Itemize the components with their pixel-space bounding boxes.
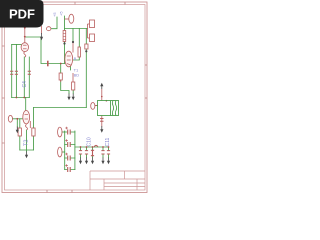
wire leg CE (80, 147, 82, 158)
svg-text:T2: T2 (23, 140, 29, 146)
connector X2 pin (65, 18, 69, 20)
polarized cap CA plates (68, 130, 71, 135)
crystal X1a pin (88, 23, 90, 25)
wire D1 to bus2 long vertical (85, 29, 87, 108)
junction dot T2 gate (16, 118, 18, 120)
crystal X1a body (90, 20, 95, 28)
title block (90, 171, 145, 190)
wire leg CF (86, 147, 88, 158)
wire bus2 horizontal (34, 107, 87, 109)
wire J2 pin (62, 151, 65, 153)
wire label N2 down to top bus (64, 16, 66, 30)
gnd arrow under relay (100, 126, 103, 133)
capacitor C2 plates on x14.5 (10, 71, 13, 74)
frame tick left 2 (2, 97, 5, 99)
capacitor CI plates (107, 151, 110, 154)
wire gnd stub x17.3 (16, 119, 18, 127)
gnd arrow leg CI (107, 158, 110, 165)
ground arrows and junctions black (16, 33, 110, 164)
resistor R3 body (18, 128, 21, 136)
junction dot R1 bottom (63, 42, 65, 44)
wire T1 source leg 2 (28, 57, 30, 98)
capacitor CE plates (79, 151, 82, 154)
frame inner border (5, 5, 146, 191)
connector X2 oval (69, 14, 74, 23)
wire relay J4 pin joint (96, 105, 98, 107)
junction dots bus1 (16, 97, 18, 99)
frame tick top 1 (74, 2, 76, 5)
capacitor CG body (91, 150, 94, 155)
frame tick bottom 1 (46, 190, 48, 193)
resistor R5 bottom pin (60, 80, 62, 82)
frame tick top 2 (124, 2, 126, 5)
svg-text:C11: C11 (105, 137, 111, 146)
frame tick bottom 2 (71, 190, 73, 193)
junction dot R5 branch (60, 63, 62, 65)
transistor T2 squiggle (26, 125, 28, 131)
relay K1 top pin (101, 89, 103, 101)
transistor T2 body (23, 111, 30, 124)
polarized cap CC plates (68, 156, 71, 161)
svg-text:C10: C10 (87, 137, 93, 146)
gnd arrow leg CG (91, 158, 94, 165)
wire vertical x14.5 (11, 45, 13, 98)
wire bottom gnd bus (75, 146, 109, 148)
wire T1 source leg 1 (23, 57, 25, 98)
fuse bump on bottom bus (94, 145, 98, 147)
connector J1 oval (58, 127, 62, 137)
wire R4 bottom (33, 136, 35, 150)
supply arrow up at relay (100, 83, 103, 89)
polarized cap CD plus (65, 164, 68, 167)
frame tick right 2 (145, 97, 147, 99)
transistor Q3 top pin (72, 43, 74, 53)
wire R5 branch from base wire (61, 64, 69, 94)
wire R3 top drop (19, 119, 21, 128)
wire leg CI (108, 147, 110, 158)
crystal pins vertical link (87, 24, 89, 38)
gnd arrow leg CE (79, 158, 82, 165)
wire T1 gate bus (12, 44, 21, 46)
resistor R2 body (78, 47, 80, 57)
wire R2 bottom to Q3 right (73, 57, 80, 60)
wire net group (12, 16, 109, 170)
gnd arrow under J3 (16, 127, 19, 134)
wire R3 bottom (19, 136, 21, 150)
PDF badge (0, 0, 44, 28)
svg-text:B: B (74, 56, 77, 61)
gnd arrow under T2 bus (25, 152, 28, 159)
connector J4 pin (95, 105, 98, 107)
resistor R1 body (63, 31, 66, 42)
gnd arrow under R6 (72, 94, 75, 101)
polarized cap CB plus (65, 139, 68, 142)
wire bus2 corner to R4 (33, 108, 35, 129)
relay K1 bottom pin (101, 116, 103, 127)
frame tick left 3 (2, 142, 5, 144)
wire bus1 (12, 97, 30, 99)
crystal X1b body (90, 34, 95, 42)
polarized cap CA plus (65, 127, 68, 130)
relay K1 second pin dot (106, 100, 108, 102)
wire J1 pin (62, 131, 65, 133)
capacitor C1 series mark (47, 61, 49, 67)
wire cap CD stubs (65, 169, 75, 171)
resistor R6 body (72, 82, 75, 90)
wire R2 drop (78, 29, 80, 48)
junction dot T1 drain (24, 36, 26, 38)
resistor R4 body (32, 128, 35, 136)
polarized cap CC plus (65, 153, 68, 156)
wire T2 source down (26, 130, 28, 150)
wire output rail left (64, 131, 66, 170)
wire Q3 collector drop (72, 29, 74, 43)
capacitor C4 plates on x30.5 (28, 71, 31, 74)
junction dot T1 pin top (24, 27, 26, 29)
wire bus1 down to T2 (25, 98, 27, 114)
page background (0, 0, 149, 198)
crystal X1b pin (88, 37, 90, 39)
supply pin under badge (41, 26, 43, 34)
transistor Q3 body (65, 51, 73, 67)
wire leg CH (102, 147, 104, 158)
wire T1 drain to C1 to Q3 base (25, 37, 65, 64)
svg-text:+5: +5 (52, 12, 57, 17)
wire leg CG (92, 147, 94, 158)
svg-text:C4: C4 (22, 81, 28, 88)
wire cap CB stubs (65, 144, 75, 146)
wire R1 bottom to Q3 base (64, 42, 66, 64)
gnd arrow under R5 (67, 94, 70, 101)
frame tick right 1 (145, 64, 147, 66)
relay contact wave 2 (115, 101, 116, 116)
connector J3 oval (8, 115, 12, 122)
blue net labels (22, 11, 111, 147)
relay K1 top pin dot (101, 96, 103, 98)
junction dot D1 (85, 50, 87, 52)
component group red (8, 14, 110, 172)
gnd arrow leg CH (101, 158, 104, 165)
wire top bus (65, 28, 88, 30)
svg-text:BD: BD (74, 73, 80, 78)
gnd arrow under supply pin (40, 33, 43, 40)
capacitor CH plates (101, 151, 104, 154)
wire gnd bus under T2 (20, 150, 34, 152)
junction dot Q3 collector (72, 41, 74, 43)
capacitor CF plates (85, 151, 88, 154)
transistor T1 body (21, 43, 28, 52)
junction dots bottom bus (80, 146, 82, 148)
wire T2 gate (13, 118, 24, 120)
diode D1 body (85, 44, 88, 49)
capacitor C3 plates on x18.5 (15, 71, 18, 74)
frame outer border (2, 2, 147, 193)
resistor R5 body (59, 73, 62, 80)
polarized cap CB plates (68, 142, 71, 147)
wire cap CA stubs (65, 131, 75, 133)
wire output rail right (74, 131, 76, 170)
svg-text:PDF: PDF (9, 7, 35, 22)
connector J2 oval (58, 147, 62, 157)
svg-text:+5: +5 (59, 11, 64, 16)
wire Q3 emitter through R6 (71, 67, 74, 94)
frame tick left 1 (2, 45, 5, 47)
transistor T1 top pin (24, 28, 26, 44)
transistor T1 squiggle (24, 52, 26, 58)
connector J4 oval (91, 103, 95, 110)
pin P1 open circle (47, 27, 51, 31)
gnd arrow leg CF (85, 158, 88, 165)
relay K1 body green box (98, 101, 119, 116)
relay coil divider (110, 101, 112, 116)
relay contact wave 1 (112, 101, 113, 116)
wire cap CC stubs (65, 157, 75, 159)
wire vertical x18.5 (15, 45, 17, 98)
wire pin P1 to label N1 (51, 17, 57, 29)
polarized cap CD plates (68, 167, 71, 172)
resistor R6 top pin (72, 73, 74, 82)
